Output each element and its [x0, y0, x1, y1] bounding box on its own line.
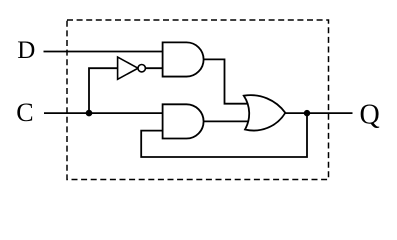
- svg-text:Q: Q: [360, 100, 380, 131]
- svg-text:D: D: [17, 37, 35, 64]
- svg-text:C: C: [16, 98, 33, 127]
